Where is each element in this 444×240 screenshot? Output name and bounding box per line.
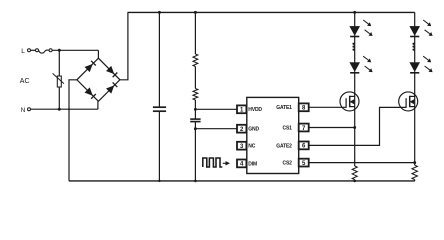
svg-text:L: L: [21, 48, 25, 55]
svg-text:CS1: CS1: [283, 125, 293, 131]
svg-text:GND: GND: [248, 127, 259, 133]
svg-text:AC: AC: [20, 78, 30, 85]
svg-text:CS2: CS2: [283, 161, 293, 167]
svg-text:NC: NC: [248, 144, 255, 150]
svg-text:DIM: DIM: [248, 161, 257, 167]
svg-text:N: N: [21, 107, 26, 114]
svg-text:GATE2: GATE2: [276, 143, 292, 149]
svg-text:HVDD: HVDD: [248, 107, 262, 113]
svg-text:GATE1: GATE1: [276, 105, 292, 111]
